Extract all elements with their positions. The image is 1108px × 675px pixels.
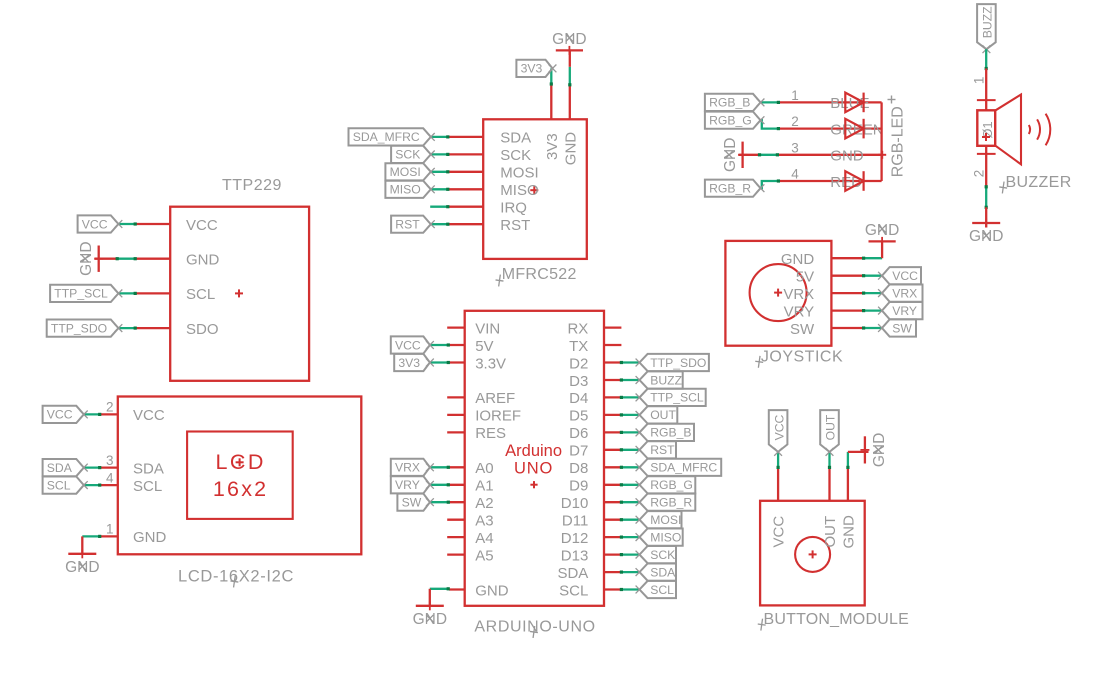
buzzer value text: [980, 121, 995, 138]
flag BUZZ net label (buzzer): [977, 4, 996, 53]
svg-text:D3: D3: [569, 373, 588, 390]
svg-text:SCL: SCL: [133, 478, 162, 495]
flag VCC net label (Arduino): [391, 336, 434, 353]
net wire GND (joystick): [862, 257, 882, 260]
svg-text:SDA: SDA: [133, 460, 164, 477]
ground symbol GND (LCD): [65, 549, 99, 576]
LCD part name label: [178, 568, 294, 588]
svg-text:TX: TX: [569, 338, 588, 355]
RGB-LED pin 3 number: [791, 140, 799, 155]
svg-text:1: 1: [791, 88, 799, 103]
MFRC522 pin 3V3 label: [544, 133, 561, 160]
svg-text:2: 2: [972, 170, 987, 178]
IC U6 BUTTON_MODULE body: [760, 501, 865, 606]
svg-text:RST: RST: [500, 217, 530, 234]
LCD pin number 3: [106, 453, 114, 468]
net wire GND (buzzer): [985, 185, 988, 209]
svg-text:SDO: SDO: [186, 321, 219, 338]
flag TTP_SDO net label: [47, 320, 123, 337]
net wire 3V3 (Arduino 3.3V): [430, 361, 450, 364]
flag VRY net label (Arduino): [391, 476, 434, 493]
BUTTON_MODULE part name label: [757, 611, 909, 631]
svg-text:D4: D4: [569, 390, 588, 407]
LCD pin number 2: [106, 400, 114, 415]
svg-text:GND: GND: [969, 228, 1003, 245]
Arduino pin RX: [567, 320, 621, 337]
net wire IRQ stub (MFRC522): [430, 205, 449, 208]
svg-text:D7: D7: [569, 443, 588, 460]
svg-text:1: 1: [972, 77, 987, 85]
svg-text:UNO: UNO: [514, 460, 553, 478]
LED diode GREEN: [845, 119, 863, 139]
net wire GND (LCD): [82, 535, 101, 538]
svg-text:D13: D13: [561, 547, 589, 564]
svg-text:RX: RX: [567, 320, 588, 337]
net wire SDA (LCD): [84, 466, 101, 469]
svg-text:3V3: 3V3: [521, 62, 543, 76]
Arduino pin D5: [569, 408, 621, 425]
flag SW net label (Arduino): [397, 494, 433, 511]
button pin OUT label: [822, 516, 839, 548]
button pin GND label: [840, 515, 857, 549]
flag VCC net label (TTP229): [78, 215, 123, 232]
joystick pin VRX: [783, 286, 863, 303]
Arduino pin IOREF: [447, 408, 521, 425]
svg-text:3: 3: [106, 453, 114, 468]
Arduino pin SCL: [559, 582, 621, 599]
button origin cross: [809, 550, 817, 558]
RGB-LED origin cross: [878, 151, 886, 159]
IC U5 JOYSTICK body: [725, 241, 831, 346]
svg-text:5V: 5V: [796, 269, 814, 286]
LCD value text line1: [215, 450, 266, 474]
svg-text:RGB_G: RGB_G: [709, 114, 752, 128]
svg-text:RGB_B: RGB_B: [650, 426, 691, 440]
svg-text:5V: 5V: [475, 338, 493, 355]
RGB-LED pin 1 number: [791, 88, 799, 103]
button pin GND wire: [847, 467, 849, 500]
net wire SCK (MFRC522): [430, 153, 450, 156]
net wire TTP_SDO: [118, 327, 136, 330]
flag BUZZ net label (Arduino): [636, 371, 683, 388]
Arduino pin D3: [569, 373, 621, 390]
svg-text:VCC: VCC: [186, 217, 218, 234]
flag VCC net label (joystick): [878, 267, 921, 284]
Arduino pin VIN: [447, 320, 500, 337]
TTP229 pin SCL: [135, 286, 215, 303]
joystick pin SW: [790, 321, 864, 338]
IC U4 ARDUINO-UNO body: [465, 311, 604, 606]
svg-text:MOSI: MOSI: [500, 165, 538, 182]
wire GND down (LCD): [81, 536, 83, 553]
ground symbol GND (MFRC522): [552, 31, 586, 67]
net wire GND (MFRC522): [568, 67, 571, 87]
wire GND down (Arduino): [429, 589, 431, 606]
svg-text:GND: GND: [840, 515, 857, 549]
flag RGB_R net label: [705, 180, 765, 197]
svg-text:3.3V: 3.3V: [475, 355, 506, 372]
LCD pin number 1: [106, 522, 114, 537]
MFRC522 pin MISO: [448, 182, 539, 199]
RGB-LED pin BLUE label: [830, 95, 869, 112]
IC U2 MFRC522 body: [483, 119, 587, 259]
svg-text:GND: GND: [830, 148, 864, 165]
net wire RGB_R: [761, 179, 781, 188]
buzzer sound waves: [1029, 114, 1050, 146]
svg-text:BUZZ: BUZZ: [981, 6, 995, 38]
svg-text:BUZZER: BUZZER: [1006, 174, 1072, 191]
TTP229 part name label: [222, 177, 282, 194]
RGB-LED pin RED label: [830, 174, 862, 191]
BUZZER part name label: [998, 174, 1071, 194]
net wire VCC (joystick): [862, 274, 881, 277]
svg-text:1: 1: [106, 522, 114, 537]
ground symbol GND (joystick): [865, 222, 899, 246]
svg-text:MISO: MISO: [500, 182, 538, 199]
svg-text:4: 4: [106, 470, 114, 485]
svg-text:JOYSTICK: JOYSTICK: [761, 348, 843, 365]
MFRC522 pin SCK: [448, 147, 531, 164]
svg-text:SDA: SDA: [557, 565, 588, 582]
LED diode BLUE: [845, 93, 863, 113]
LCD pin SCL: [100, 478, 162, 495]
flag RST net label (MFRC522): [391, 216, 435, 233]
buzzer pin 1 number: [972, 77, 987, 85]
Arduino pin A5: [447, 547, 493, 564]
svg-text:TTP229: TTP229: [222, 177, 282, 194]
svg-text:D10: D10: [561, 495, 589, 512]
joystick knob circle: [750, 264, 807, 321]
svg-text:LCD-16X2-I2C: LCD-16X2-I2C: [178, 568, 294, 586]
Arduino pin GND: [449, 582, 509, 599]
flag SDA_MFRC net label (MFRC522): [349, 128, 435, 145]
IC U1 TTP229 body: [170, 207, 309, 381]
svg-text:GND: GND: [552, 31, 586, 48]
MFRC522 pin RST: [448, 217, 531, 234]
flag OUT net label (Arduino): [636, 406, 678, 423]
net wire TTP_SCL (Arduino): [620, 396, 639, 399]
svg-text:BUTTON_MODULE: BUTTON_MODULE: [764, 611, 909, 628]
svg-text:SCK: SCK: [500, 147, 531, 164]
net wire RGB_B: [761, 101, 781, 104]
svg-text:OUT: OUT: [824, 414, 838, 440]
MFRC522 part name label: [495, 266, 577, 287]
LCD pin GND: [100, 529, 167, 546]
svg-text:A1: A1: [475, 478, 493, 495]
svg-text:SCL: SCL: [186, 286, 215, 303]
IC U3 LCD-16X2-I2C body: [118, 397, 361, 555]
wire GND net (RGB-LED): [739, 153, 780, 156]
LCD pin SDA: [100, 460, 164, 477]
flag 3V3 net label (MFRC522): [516, 60, 556, 77]
net wire BUZZ (Arduino): [620, 378, 639, 381]
wire buzzer pin1 net: [985, 69, 987, 101]
button pin OUT wire: [828, 467, 830, 500]
svg-text:A4: A4: [475, 530, 493, 547]
RGB-LED part name label: [889, 106, 906, 177]
joystick pin VRY: [784, 303, 864, 320]
LCD origin cross: [236, 458, 244, 466]
svg-text:D9: D9: [569, 478, 588, 495]
svg-text:GND: GND: [65, 559, 99, 576]
RGB-LED pin 2 number: [791, 114, 799, 129]
svg-text:VCC: VCC: [771, 516, 788, 548]
ground symbol GND (buzzer): [969, 219, 1003, 246]
net wire VCC to TTP229: [118, 222, 136, 225]
Arduino pin TX: [569, 338, 621, 355]
svg-text:TTP_SCL: TTP_SCL: [650, 391, 704, 405]
svg-text:RST: RST: [650, 443, 675, 457]
svg-text:AREF: AREF: [475, 390, 515, 407]
flag TTP_SDO net label (Arduino): [636, 354, 709, 371]
Arduino pin A3: [447, 513, 493, 530]
svg-text:GND: GND: [871, 433, 888, 467]
ARDUINO-UNO part name label: [474, 619, 595, 639]
flag VCC net label (LCD): [43, 406, 88, 423]
svg-text:IOREF: IOREF: [475, 408, 521, 425]
wire to ground (buzzer): [985, 207, 987, 227]
svg-text:VRY: VRY: [784, 303, 815, 320]
svg-text:SCL: SCL: [47, 478, 71, 492]
flag VRY net label (joystick): [878, 302, 922, 319]
MFRC522 pin GND label: [562, 132, 579, 166]
svg-text:BUZZ: BUZZ: [650, 373, 682, 387]
LCD pin VCC: [100, 407, 165, 424]
svg-text:VRY: VRY: [395, 478, 420, 492]
svg-text:VRY: VRY: [892, 304, 917, 318]
svg-text:RGB_G: RGB_G: [650, 478, 693, 492]
MFRC522 pin SDA: [448, 130, 531, 147]
svg-text:SCL: SCL: [559, 582, 588, 599]
net wire VCC (button): [777, 452, 780, 469]
svg-text:A3: A3: [475, 513, 493, 530]
svg-text:VRX: VRX: [892, 286, 917, 300]
net wire SCL (LCD): [84, 484, 101, 487]
net wire RGB_G (Arduino): [620, 483, 639, 486]
svg-text:GND: GND: [722, 138, 739, 172]
button pin VCC wire: [777, 467, 779, 500]
flag MISO net label (Arduino): [636, 529, 683, 546]
Arduino pin A4: [447, 530, 493, 547]
Arduino pin A0: [447, 460, 493, 477]
ground symbol GND (Arduino): [413, 601, 447, 628]
TTP229 pin SDO: [135, 321, 218, 338]
Arduino pin D12: [561, 530, 622, 547]
net wire RGB_B (Arduino): [620, 431, 639, 434]
flag TTP_SCL net label: [50, 285, 122, 302]
MFRC522 origin cross: [530, 186, 538, 194]
svg-text:OUT: OUT: [650, 408, 676, 422]
svg-text:SW: SW: [892, 321, 912, 335]
Arduino pin D6: [569, 425, 621, 442]
net wire OUT (Arduino): [620, 413, 639, 416]
net wire SDA_MFRC (MFRC522): [430, 135, 450, 138]
svg-text:VCC: VCC: [82, 217, 108, 231]
net wire MISO (MFRC522): [430, 188, 450, 191]
net wire VCC (Arduino 5V): [430, 343, 450, 346]
Arduino pin AREF: [447, 390, 515, 407]
LED diode RED: [845, 171, 863, 191]
MFRC522 pin 3V3 wire: [550, 84, 552, 119]
MFRC522 pin IRQ: [448, 200, 527, 217]
svg-text:SDA: SDA: [500, 130, 531, 147]
svg-text:GND: GND: [865, 222, 899, 239]
svg-text:VRX: VRX: [783, 286, 814, 303]
flag MOSI net label (Arduino): [636, 511, 682, 528]
joystick origin cross: [774, 289, 782, 297]
svg-text:D8: D8: [569, 460, 588, 477]
svg-text:SCL: SCL: [650, 583, 674, 597]
Arduino origin cross: [530, 481, 537, 488]
svg-text:RGB_R: RGB_R: [650, 496, 692, 510]
net wire SCK (Arduino): [620, 553, 639, 556]
TTP229 pin GND: [135, 252, 219, 269]
RGB-LED pin GND label: [830, 148, 864, 165]
Arduino pin 3.3V: [447, 355, 506, 372]
wire GND up (joystick): [881, 241, 883, 258]
net wire TTP_SDO (Arduino): [620, 361, 639, 364]
svg-text:MOSI: MOSI: [650, 513, 681, 527]
buzzer LS1 body: [977, 110, 995, 146]
svg-text:TTP_SCL: TTP_SCL: [54, 287, 108, 301]
wire buzzer pin2 net: [985, 154, 987, 187]
svg-text:Arduino: Arduino: [505, 442, 562, 460]
flag SDA_MFRC net label (Arduino): [636, 459, 722, 476]
flag 3V3 net label (Arduino): [394, 354, 434, 371]
flag RGB_G net label (Arduino): [636, 476, 696, 493]
svg-text:D5: D5: [569, 408, 588, 425]
svg-text:RGB-LED: RGB-LED: [889, 106, 906, 177]
net wire RGB_R (Arduino): [620, 501, 639, 504]
RGB-LED pin GREEN label: [830, 121, 883, 138]
net wire RST (MFRC522): [430, 223, 450, 226]
LCD pin number 4: [106, 470, 114, 485]
net wire SCL (Arduino): [620, 588, 639, 591]
svg-text:MFRC522: MFRC522: [502, 266, 577, 283]
MFRC522 pin GND wire: [569, 85, 571, 120]
svg-text:VCC: VCC: [47, 408, 73, 422]
svg-text:SDA_MFRC: SDA_MFRC: [650, 461, 717, 475]
svg-text:D2: D2: [569, 355, 588, 372]
svg-text:GND: GND: [78, 241, 95, 275]
Arduino pin SDA: [557, 565, 621, 582]
flag RGB_R net label (Arduino): [636, 494, 696, 511]
net wire SW (Arduino A2): [430, 501, 450, 504]
svg-text:D6: D6: [569, 425, 588, 442]
svg-text:SCK: SCK: [650, 548, 675, 562]
buzzer origin cross: [982, 133, 990, 141]
net wire MOSI (MFRC522): [430, 170, 450, 173]
Arduino value text line1: [505, 442, 562, 460]
buzzer horn: [996, 95, 1021, 165]
svg-text:VCC: VCC: [892, 269, 918, 283]
flag SW net label (joystick): [878, 319, 916, 336]
flag TTP_SCL net label (Arduino): [636, 389, 706, 406]
svg-text:RES: RES: [475, 425, 506, 442]
svg-text:TTP_SDO: TTP_SDO: [51, 321, 107, 335]
Arduino pin D7: [569, 443, 621, 460]
Arduino value text line2: [514, 460, 553, 478]
RGB-LED pin 1 wire: [778, 101, 881, 103]
svg-text:D12: D12: [561, 530, 589, 547]
Arduino pin D8: [569, 460, 621, 477]
svg-text:SDA: SDA: [650, 565, 676, 579]
svg-text:GND: GND: [186, 252, 220, 269]
svg-text:RGB_B: RGB_B: [709, 96, 750, 110]
net wire SW (joystick): [862, 326, 881, 329]
svg-text:SDA_MFRC: SDA_MFRC: [353, 130, 420, 144]
flag VCC net label (button): [769, 410, 788, 456]
Arduino pin D13: [561, 547, 622, 564]
wire GND net (TTP229): [95, 257, 137, 260]
ground symbol GND (button): [860, 433, 888, 467]
svg-text:4: 4: [791, 167, 799, 182]
net wire RGB_G: [761, 120, 781, 130]
ground symbol GND (TTP229): [78, 241, 103, 275]
Arduino pin D10: [561, 495, 622, 512]
svg-text:A2: A2: [475, 495, 493, 512]
joystick pin 5V: [796, 269, 864, 286]
svg-text:VCC: VCC: [772, 414, 786, 440]
net wire 3V3 (MFRC522): [550, 68, 553, 85]
button pin VCC label: [771, 516, 788, 548]
Arduino pin D9: [569, 478, 621, 495]
svg-text:MISO: MISO: [650, 530, 681, 544]
buzzer pin 2 number: [972, 170, 987, 178]
Arduino pin 5V: [447, 338, 493, 355]
flag MOSI net label (MFRC522): [385, 163, 434, 180]
RGB-LED common bus wire: [880, 102, 882, 181]
svg-text:MISO: MISO: [390, 183, 421, 197]
svg-text:IRQ: IRQ: [500, 200, 527, 217]
net wire GND (button): [846, 452, 849, 469]
svg-text:VIN: VIN: [475, 320, 500, 337]
net wire OUT (button): [828, 452, 831, 469]
buzzer pin 2 tick: [977, 146, 996, 154]
svg-text:VCC: VCC: [395, 338, 421, 352]
svg-text:3V3: 3V3: [398, 356, 420, 370]
Arduino pin RES: [447, 425, 506, 442]
TTP229 pin VCC: [135, 217, 218, 234]
svg-text:SDA: SDA: [47, 461, 73, 475]
svg-text:SCK: SCK: [395, 148, 420, 162]
flag OUT net label (button): [820, 410, 839, 456]
flag RGB_G net label: [705, 112, 765, 129]
net wire RST (Arduino): [620, 448, 639, 451]
flag RGB_B net label (Arduino): [636, 424, 694, 441]
flag SCK net label (Arduino): [636, 546, 676, 563]
net wire SDA (Arduino): [620, 571, 639, 574]
flag VRX net label (joystick): [878, 285, 922, 302]
net wire VRY (joystick): [862, 309, 881, 312]
RGB-LED pin 3 wire: [777, 154, 881, 156]
RGB-LED pin 4 wire: [778, 180, 881, 182]
flag SCK net label (MFRC522): [391, 146, 435, 163]
Arduino pin A2: [447, 495, 493, 512]
flag SDA net label (LCD): [43, 459, 88, 476]
flag SDA net label (Arduino): [636, 564, 677, 581]
Arduino pin D2: [569, 355, 621, 372]
RGB-LED pin 4 number: [791, 167, 799, 182]
svg-text:SW: SW: [402, 496, 422, 510]
MFRC522 pin MOSI: [448, 165, 539, 182]
svg-text:3: 3: [791, 140, 799, 155]
svg-text:RST: RST: [395, 218, 420, 232]
Arduino pin D4: [569, 390, 621, 407]
net wire BUZZ (buzzer): [985, 49, 988, 70]
svg-text:GND: GND: [413, 611, 447, 628]
buzzer pin 1 tick: [977, 100, 996, 110]
